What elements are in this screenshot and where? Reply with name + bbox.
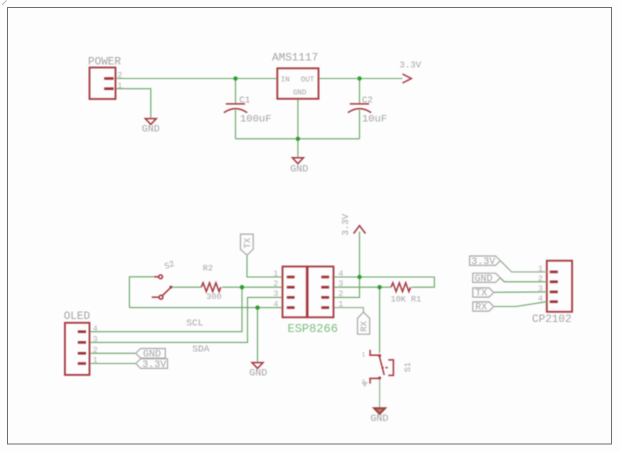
svg-text:C2: C2 xyxy=(362,96,373,106)
S1 actuator dashed link xyxy=(382,367,389,369)
svg-text:OLED: OLED xyxy=(64,311,91,323)
svg-text:AMS1117: AMS1117 xyxy=(272,53,318,65)
wire R2 to ESP pin2 (net SCL) xyxy=(222,286,283,288)
flag RX (ESP right pin1) xyxy=(358,312,370,334)
S1 pin mark blob xyxy=(362,382,369,387)
ESP right pin stubs xyxy=(321,276,329,279)
svg-text:3.3V: 3.3V xyxy=(471,257,495,268)
svg-text:GND: GND xyxy=(293,90,307,98)
junction at C1 / VIN xyxy=(233,76,237,80)
S1 bottom contact dot xyxy=(378,377,381,380)
svg-text:S1: S1 xyxy=(403,362,413,372)
capacitor C2 top plate xyxy=(350,103,369,105)
wire C2 top lead xyxy=(359,79,361,104)
module ESP8266 right box xyxy=(308,267,334,318)
POWER pin stub 1 xyxy=(104,87,113,90)
svg-text:1: 1 xyxy=(362,351,366,358)
connector POWER xyxy=(90,68,116,100)
flag RX (CP2102) xyxy=(473,302,494,311)
junction ESP pin4 / GND xyxy=(255,305,259,309)
svg-text:GND: GND xyxy=(249,368,267,379)
connector OLED xyxy=(65,323,90,375)
wire ESP right pin1 to RX flag xyxy=(334,308,364,312)
wire AMS1117 OUT to 3.3V arrow (net 3.3V) xyxy=(319,78,403,80)
flag GND (OLED pin2) xyxy=(136,349,166,359)
module ESP8266 left box xyxy=(283,267,307,318)
wire SDA from ESP pin3 to OLED pin3 xyxy=(90,297,283,342)
svg-text:GND: GND xyxy=(142,125,160,136)
svg-text:CP2102: CP2102 xyxy=(532,314,572,326)
svg-text:100uF: 100uF xyxy=(240,114,272,126)
junction at GND rail xyxy=(296,137,300,141)
wire 3.3V flag to CP2102 pin1 xyxy=(500,261,546,272)
svg-text:POWER: POWER xyxy=(88,57,121,69)
ground symbol under AMS1117 xyxy=(292,158,303,164)
wire GND flag to CP2102 pin2 xyxy=(500,278,547,282)
svg-text:2: 2 xyxy=(273,279,278,289)
svg-text:GND: GND xyxy=(370,414,388,425)
S1 top contact dot xyxy=(378,354,381,357)
wire S2 lever to R2 xyxy=(172,286,201,288)
resistor R2 zigzag xyxy=(201,283,221,292)
S2 lever end dot xyxy=(169,286,172,289)
junction at C2 / 3.3V xyxy=(357,76,361,80)
regulator U1 AMS1117 box xyxy=(277,68,318,99)
svg-text:4: 4 xyxy=(93,324,98,334)
S1 actuator bracket xyxy=(388,360,393,376)
S2 top contact stub xyxy=(154,276,158,278)
svg-text:1: 1 xyxy=(117,81,122,91)
POWER pin stub 2 xyxy=(104,77,113,80)
svg-text:RX: RX xyxy=(475,303,487,314)
svg-text:1: 1 xyxy=(273,269,278,279)
wire bottom GND rail xyxy=(236,138,360,140)
wire POWER pin2 to AMS1117 IN (net VIN) xyxy=(116,78,278,80)
wire RX flag to CP2102 pin4 xyxy=(494,302,547,307)
S1 bottom terminal xyxy=(369,377,380,379)
flag TX (CP2102) xyxy=(473,288,494,297)
svg-text:2: 2 xyxy=(117,71,122,81)
svg-text:TX: TX xyxy=(243,237,253,248)
wire S1 to ground symbol xyxy=(379,378,381,407)
wire 3.3V supply down to ESP right pin4 and pin2 xyxy=(334,232,360,298)
S2 bottom contact stub xyxy=(152,296,159,298)
flag TX (to ESP pin1) xyxy=(241,234,254,255)
svg-text:SDA: SDA xyxy=(192,344,209,355)
wire S2 top contact to GND net xyxy=(129,277,153,308)
svg-text:3.3V: 3.3V xyxy=(142,360,166,371)
S2 lever xyxy=(162,288,170,296)
svg-text:10uF: 10uF xyxy=(362,114,387,126)
junction 3.3V / pin4 row xyxy=(357,275,361,279)
wire POWER pin1 down to GND xyxy=(116,89,151,118)
resistor R1 zigzag xyxy=(391,283,411,292)
svg-text:2: 2 xyxy=(538,274,543,284)
svg-text:C1: C1 xyxy=(239,96,250,106)
OLED pin stubs xyxy=(78,330,86,333)
wire C1 top lead xyxy=(235,79,237,104)
svg-text:4: 4 xyxy=(273,299,278,309)
flag 3.3V (CP2102) xyxy=(470,256,501,265)
capacitor C2 bottom plate arc xyxy=(348,109,371,113)
svg-text:RX: RX xyxy=(360,320,370,331)
ground symbol below ESP pin4 xyxy=(252,363,263,369)
svg-text:2: 2 xyxy=(338,289,343,299)
svg-text:1: 1 xyxy=(93,356,98,366)
svg-text:1: 1 xyxy=(338,299,343,309)
connector CP2102 xyxy=(547,261,572,312)
S1 lever xyxy=(379,356,384,375)
svg-text:3: 3 xyxy=(93,335,98,345)
flag GND (CP2102) xyxy=(473,273,501,282)
svg-text:GND: GND xyxy=(475,274,493,285)
wire AMS1117 GND pin down xyxy=(297,99,299,139)
wire OLED pin1 to 3.3V flag xyxy=(90,363,136,365)
CP2102 pin stubs xyxy=(550,271,558,274)
wire ESP pin4 junction down to ground xyxy=(257,308,259,362)
wire pin3 junction down to S1 xyxy=(379,287,381,353)
switch S2 bottom contact xyxy=(159,295,163,299)
ground symbol under S1 xyxy=(374,408,385,414)
svg-text:4: 4 xyxy=(338,269,343,279)
capacitor C1 top plate xyxy=(226,103,245,105)
S1 top terminal tick xyxy=(369,350,371,355)
svg-text:TX: TX xyxy=(475,289,487,300)
wire GND row to ESP pin4 xyxy=(129,307,282,309)
wire ESP right pin4 row to R1 pullup xyxy=(334,277,435,287)
supply arrow 3.3V (top right) xyxy=(403,74,412,83)
svg-text:1: 1 xyxy=(538,264,543,274)
svg-text:SCL: SCL xyxy=(186,318,203,329)
wire SCL down to OLED pin4 xyxy=(90,287,243,332)
svg-text:OUT: OUT xyxy=(301,77,315,85)
wire OLED pin2 to GND flag xyxy=(90,352,136,354)
svg-text:3: 3 xyxy=(273,289,278,299)
ESP left pin stubs xyxy=(287,276,295,279)
wire C1 bottom lead xyxy=(235,110,237,139)
wire C2 bottom lead xyxy=(359,110,361,139)
svg-text:IN: IN xyxy=(281,77,290,85)
S1 bottom terminal tick xyxy=(369,378,371,383)
ground symbol under POWER xyxy=(145,119,156,125)
svg-text:300: 300 xyxy=(206,292,221,302)
svg-text:R2: R2 xyxy=(203,263,213,273)
page corner artifact xyxy=(2,1,7,6)
wire GND rail to ground symbol xyxy=(297,139,299,157)
supply arrow 3.3V (above ESP) xyxy=(354,226,366,234)
flag 3.3V (OLED pin1) xyxy=(136,359,168,369)
capacitor C1 bottom plate arc xyxy=(224,109,247,113)
switch S1 top terminal xyxy=(369,354,380,356)
svg-text:2: 2 xyxy=(93,346,98,356)
svg-text:3.3V: 3.3V xyxy=(400,61,422,71)
svg-text:3: 3 xyxy=(538,284,543,294)
junction pin3 row / S1 xyxy=(377,285,381,289)
svg-text:ESP8266: ESP8266 xyxy=(288,322,338,336)
svg-text:3.3V: 3.3V xyxy=(341,213,351,235)
switch S2 top contact xyxy=(159,275,163,279)
svg-text:10K R1: 10K R1 xyxy=(391,294,422,304)
svg-text:GND: GND xyxy=(290,164,308,175)
svg-text:3: 3 xyxy=(338,279,343,289)
wire TX flag to ESP pin1 xyxy=(247,255,283,277)
wire ESP right pin3 row to R1 xyxy=(334,286,392,288)
junction ESP pin2 / SCL xyxy=(240,285,244,289)
wire TX flag to CP2102 pin3 xyxy=(494,291,547,293)
